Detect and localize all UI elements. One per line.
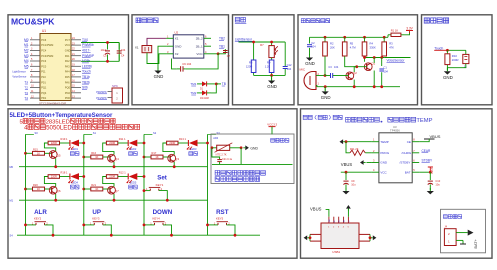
svg-text:VCC: VCC [196,52,203,56]
svg-text:C9: C9 [351,179,355,183]
svg-text:LightSensor: LightSensor [235,38,253,42]
resistor R11 220R [106,141,117,145]
svg-text:USB1: USB1 [332,250,340,254]
IC U2 body [173,35,204,58]
battery socket box [441,209,486,253]
svg-text:R18 1: R18 1 [61,171,68,175]
svg-text:PC3/PWM: PC3/PWM [41,54,53,58]
svg-text:R2: R2 [330,42,334,46]
capacitor C4 104 [118,43,120,50]
IC U1 left pins with numbers [30,39,40,41]
svg-text:NTC 2.7K: NTC 2.7K [216,153,227,156]
IC U2 left pins [166,37,173,39]
capacitor C7 at VCC [218,49,225,54]
svg-text:KEY2: KEY2 [34,216,42,220]
connector SPK1 [112,88,123,103]
svg-text:104: 104 [384,69,389,73]
panel frame light-sensor [233,15,295,105]
IC U3 left pins [372,141,379,143]
svg-text:1K: 1K [95,187,98,191]
temperature-sense box [211,134,294,184]
svg-text:LED3: LED3 [190,147,197,151]
svg-text:BAT: BAT [405,170,411,174]
svg-text:Q4: Q4 [115,157,119,161]
svg-text:PA2: PA2 [65,59,70,63]
svg-text:T1: T1 [24,80,28,84]
svg-text:330K: 330K [370,45,376,49]
svg-text:120R: 120R [246,65,252,69]
svg-text:KEY5: KEY5 [216,216,224,220]
svg-text:4: 4 [24,125,28,132]
svg-text:X1: X1 [135,46,139,50]
power flag 3.3V [404,32,410,35]
wire temp box internal rail [212,163,293,165]
capacitor C2 104 [309,37,311,43]
svg-text:PA6: PA6 [65,80,70,84]
svg-text:VoiceSensor: VoiceSensor [12,76,26,79]
svg-text:220R: 220R [51,142,57,145]
svg-text:1K: 1K [95,155,98,159]
capacitor C1 104 [381,58,383,67]
wire collector jog to 220R [163,143,174,155]
svg-text:SPK: SPK [112,84,118,88]
svg-text:Q7: Q7 [115,189,119,193]
svg-text:PD0: PD0 [65,96,71,100]
panel frame LED+buttons [8,109,297,258]
svg-text:M2: M2 [24,49,29,53]
title light-sensor panel [235,17,240,22]
svg-text:M4: M4 [24,59,29,63]
svg-text:GND: GND [267,84,277,89]
svg-text:CE: CE [407,140,411,144]
ground arrow in temp box [245,145,249,150]
panel frame charger [301,109,493,258]
svg-text:R4: R4 [370,42,374,46]
wire emitter to bus [173,162,175,167]
diode D1 1N4148 [197,83,202,85]
svg-text:S1: S1 [93,131,97,135]
wire VBUS to USB pin [326,209,329,216]
svg-text:2B_1: 2B_1 [196,44,203,48]
svg-text:DOWN: DOWN [153,209,173,216]
wire VCC pin to junction and cap [211,53,218,55]
wire crystal to U2 pin1 [147,38,166,45]
svg-text:LED4: LED4 [72,181,79,185]
svg-text:104: 104 [287,67,292,71]
svg-text:TX0: TX0 [82,38,88,42]
capacitor C5 10uF [107,43,109,50]
svg-text:C3: C3 [328,65,332,69]
svg-text:PC0: PC0 [41,64,47,68]
svg-text:T2: T2 [24,86,28,90]
svg-text:104: 104 [121,48,126,52]
svg-text:R16: R16 [91,151,96,155]
transistor Q6 [49,186,57,194]
ground under C10 [429,188,431,191]
capacitor C9 10u [345,172,347,180]
svg-text:PC3: PC3 [41,59,47,63]
svg-text:GND: GND [250,146,258,150]
svg-text:GND: GND [65,49,71,53]
svg-text:PA5: PA5 [65,75,70,79]
resistor R15 1K [24,152,27,155]
note blue text line2 [215,177,220,182]
wire top rail [239,41,286,43]
svg-text:PC6: PC6 [41,38,47,42]
svg-text:VBUS: VBUS [341,162,353,167]
svg-text:C21 0.1u: C21 0.1u [222,158,233,161]
svg-text:2B_2: 2B_2 [196,37,203,41]
svg-text:MCU&SPK: MCU&SPK [11,16,55,26]
wire TEMP to gnd-left [346,141,372,143]
panel frame MCU&SPK [8,15,129,105]
wire R10 and J1 to ground [447,64,465,71]
panel frame clock-signal [132,15,229,105]
ground arrow above USB pin5 [347,209,349,217]
svg-text:GND: GND [175,44,183,48]
svg-text:UP: UP [92,209,101,216]
svg-text:TB2: TB2 [219,37,225,41]
crystal X1 body [142,46,152,53]
svg-text:1N4148: 1N4148 [200,97,209,100]
IC U1 right pins with numbers [71,39,81,41]
wire emitter to bus [55,158,57,166]
ground under C2 [309,55,311,58]
capacitor C6 104 [177,68,180,70]
svg-text:T3: T3 [24,91,28,95]
transistor Q5 [49,151,57,159]
ground arrow at U3 GND pin [360,160,364,165]
svg-text:5050LED: 5050LED [46,125,72,132]
svg-text:S2: S2 [153,131,157,135]
svg-text:STDBY: STDBY [422,159,434,163]
wire bottom rail [254,74,286,76]
ground touch [446,68,448,71]
svg-text:C1: C1 [384,66,388,70]
transistor Q2 [346,72,354,80]
op IC U1 body [40,34,71,101]
transistor Q1 [364,63,372,71]
IC U2 right pins [204,37,211,39]
svg-text:TB: TB [222,82,226,86]
svg-text:LED2: LED2 [130,147,137,151]
USB shield tab left [310,233,321,235]
svg-text:220R: 220R [51,176,57,179]
svg-text:RST: RST [216,209,229,216]
svg-text:X2: X2 [175,52,179,56]
svg-text:C2: C2 [311,41,315,45]
junction at C5 bottom [106,60,109,63]
svg-text:P11: P11 [41,70,46,74]
svg-text:Q1: Q1 [371,62,375,66]
svg-text:KEY3: KEY3 [92,216,100,220]
svg-text:PQ1: PQ1 [41,86,47,90]
svg-text:1.2K: 1.2K [265,65,271,69]
svg-text:VCC3.3: VCC3.3 [267,123,277,127]
SPK pin wires [108,91,113,93]
svg-text:STC15W408AS-DIP: STC15W408AS-DIP [39,101,66,105]
resistor R4 330K [363,36,366,39]
svg-text:M1: M1 [24,43,29,47]
svg-text:KEY1: KEY1 [156,183,164,187]
svg-text:200R: 200R [452,58,459,62]
svg-text:TM1: TM1 [190,82,196,86]
svg-text:Q2: Q2 [353,71,357,75]
svg-text:220R: 220R [109,142,115,145]
wire emitter to bus [113,162,115,167]
svg-text:KEY4: KEY4 [153,216,161,220]
svg-text:PD2: PD2 [65,91,71,95]
svg-text:P01: P01 [41,80,46,84]
ground bottom rail [324,87,326,91]
svg-text:R20: R20 [33,183,38,187]
svg-text:PD1: PD1 [41,96,47,100]
svg-text:1K: 1K [37,151,40,155]
wire touch rail [447,49,465,51]
IC U3 TP4056 body [379,133,412,183]
resistor R10 200R [446,50,448,53]
USB shield tab right [359,233,370,235]
svg-text:P10: P10 [41,75,46,79]
junction LED chain to column [143,142,146,145]
horizontal bus M1 [19,199,208,201]
resistor R2 20K [324,36,327,39]
svg-text:TP4056: TP4056 [390,129,400,133]
svg-text:CEAR: CEAR [422,149,432,153]
svg-text:Q6: Q6 [57,189,61,193]
svg-text:M0: M0 [24,38,29,42]
svg-text:10uF: 10uF [101,48,107,52]
wire emitter to bus [113,194,115,200]
connector J1 touch pad [465,50,467,54]
wire battery pin 1 [456,239,463,241]
svg-text:LED1: LED1 [72,147,79,151]
junction LED chain to column [82,142,85,145]
svg-text:R13 1: R13 1 [179,137,186,141]
svg-text:AD0: AD0 [213,137,218,140]
wire battery pin 2 [456,232,468,234]
svg-text:U2: U2 [174,31,178,35]
svg-text:10u: 10u [435,182,440,186]
connector USB1 body [321,223,359,249]
svg-text:104: 104 [334,65,339,69]
svg-text:S0: S0 [35,131,39,135]
title battery socket [443,215,447,219]
svg-text:VCC: VCC [65,43,71,47]
svg-text:Set: Set [157,174,167,181]
resistor R20 1K [24,188,27,191]
resistor R3 47K [383,36,386,39]
svg-text:Touch: Touch [82,70,91,74]
svg-text:VBUS: VBUS [430,134,441,139]
wire collector jog to 220R [103,177,114,187]
wire VCC to decoupling caps [81,42,119,44]
svg-text:VBUS: VBUS [310,207,322,212]
svg-text:D-: D- [334,220,336,223]
svg-text:TB1: TB1 [219,44,225,48]
wire collector jog to 220R [44,177,55,187]
resistor R5 4.7M [343,36,346,39]
junction LED chain to column [143,175,146,178]
resistor R8 left branch [253,42,255,60]
svg-text:TEMP: TEMP [416,118,432,124]
resistor R12 220R [106,175,117,179]
resistor R19 220R [48,141,59,145]
svg-text:/CHRG: /CHRG [402,151,412,155]
IC U3 right pins [412,141,419,143]
panel frame touch-key [422,15,493,105]
svg-text:U1: U1 [42,29,46,33]
svg-text:R9: R9 [267,61,271,65]
svg-text:VCC: VCC [380,170,387,174]
svg-text:P31/SPK: P31/SPK [96,96,107,100]
svg-text:Q3: Q3 [175,157,179,161]
svg-text:R17: R17 [152,151,157,155]
svg-text:R19 1: R19 1 [61,137,68,141]
ground arrow left of TEMP [340,139,344,144]
panel frame sound-detect [298,15,418,105]
title touch-key panel [424,18,429,23]
svg-text:PROG: PROG [380,151,390,155]
title charger panel [303,115,307,119]
wire BAT pin [419,171,430,173]
resistor R16 1K [82,156,85,159]
svg-text:M0: M0 [10,165,14,169]
wire diode outputs join [211,83,216,85]
svg-text:VoiceSensor: VoiceSensor [387,59,406,63]
svg-text:C7: C7 [227,54,231,58]
svg-text:R3: R3 [389,42,393,46]
svg-text:/STDBY: /STDBY [400,161,411,165]
title clock-signal panel [136,18,141,23]
ground arrow right of USB [373,235,377,240]
junction LED chain to column [206,142,209,145]
wire collector jog to 220R [44,143,55,151]
vertical wire column S2 [143,134,145,235]
svg-text:Touch: Touch [434,46,443,50]
photoresistor R7 [271,42,273,46]
svg-text:PC4: PC4 [41,49,47,53]
svg-text:47K: 47K [389,45,394,49]
title sound-detect panel [301,19,305,23]
svg-text:C10: C10 [435,179,440,183]
svg-text:TB2b: TB2b [82,80,90,84]
svg-text:C6 104: C6 104 [182,62,191,66]
resistor R13 220R [167,141,178,145]
svg-text:GND: GND [321,95,331,100]
svg-text:PA4: PA4 [65,70,70,74]
svg-text:M3: M3 [24,54,29,58]
svg-text:ALR: ALR [34,209,47,216]
svg-text:M1: M1 [10,199,14,203]
title temperature-detect [271,138,275,142]
svg-text:R1 1K: R1 1K [391,29,399,33]
svg-text:MIC: MIC [300,68,306,72]
svg-text:R15: R15 [33,148,38,152]
svg-text:PQ0: PQ0 [65,86,71,90]
svg-text:TEMP: TEMP [380,140,388,144]
power arrow BAT+ [468,230,474,236]
vertical wire column S1 [83,134,85,235]
svg-text:PA1: PA1 [65,54,70,58]
svg-text:R21: R21 [91,183,96,187]
svg-text:PWM5P: PWM5P [82,54,95,58]
svg-text:R5: R5 [350,42,354,46]
capacitor C10 10u [429,172,431,180]
wire collector jog to 220R [103,143,114,155]
svg-text:GND: GND [443,75,453,80]
transistor Q3 [168,154,176,162]
svg-text:X1: X1 [175,37,179,41]
svg-text:10u: 10u [351,182,356,186]
svg-text:5LED+5Button+TemperatureSensor: 5LED+5Button+TemperatureSensor [10,112,113,119]
svg-text:PC7: PC7 [65,38,71,42]
svg-text:R12 1: R12 1 [119,171,126,175]
USB pins top [328,217,330,223]
horizontal bus M0 [19,166,208,168]
svg-text:20K: 20K [330,45,335,49]
svg-text:1K: 1K [37,187,40,191]
wire top rail sound [310,36,389,38]
svg-text:Q5: Q5 [57,154,61,158]
capacitor C12 104 [284,42,286,66]
svg-text:S4: S4 [10,234,14,238]
wire bottom rail sound [317,86,400,88]
svg-text:LED5: LED5 [130,181,137,185]
svg-text:1K: 1K [155,155,158,159]
resistor R9 middle branch [271,59,273,61]
transistor Q4 [108,154,116,162]
svg-text:BAT+: BAT+ [474,238,478,248]
svg-text:C12: C12 [287,63,292,67]
vertical wire column S3 [207,134,209,235]
svg-text:LightSensor: LightSensor [12,70,26,73]
svg-text:S3: S3 [217,131,221,135]
svg-text:M5: M5 [24,64,29,68]
junction LED chain to column [82,175,85,178]
wire U2 pin2 to GND [158,46,166,69]
ground of light sensor [271,75,273,79]
svg-text:C5: C5 [103,54,107,58]
ground GND of U2 [157,68,159,71]
svg-text:LED5b: LED5b [82,64,92,68]
svg-text:T4: T4 [24,96,28,100]
svg-text:PQ4: PQ4 [41,91,47,95]
resistor R18 220R [48,175,59,179]
ground under C9 [345,188,347,191]
net VoiceSensor rail [364,58,366,62]
svg-text:R8: R8 [249,61,253,65]
svg-text:220R: 220R [109,176,115,179]
svg-text:S0b: S0b [82,86,88,90]
note text charger [346,117,351,122]
resistor R17 1K [143,156,146,159]
svg-text:PC1/PWM: PC1/PWM [41,43,53,47]
svg-text:GND: GND [154,74,164,79]
wire VCC pin to VBUS [341,171,372,173]
wire emitter to bus [55,194,57,200]
wire crystal to U2 pin3 [147,53,166,64]
svg-text:104: 104 [311,45,316,49]
resistor R21 1K [82,188,85,191]
svg-text:3.3V: 3.3V [406,27,413,31]
svg-text:PWM5b: PWM5b [82,43,94,47]
wire thermistor branch down [240,148,242,165]
vertical wire column S0 [25,134,27,235]
ground arrow left of USB [304,235,308,240]
svg-text:P30/SPK: P30/SPK [96,90,107,94]
svg-text:GND: GND [380,161,388,165]
